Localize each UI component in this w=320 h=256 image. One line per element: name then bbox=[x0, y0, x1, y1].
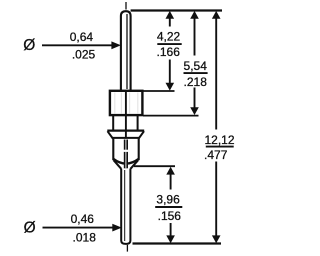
svg-text:.477: .477 bbox=[204, 148, 228, 162]
dim line 4,22 vertical segments bbox=[169, 17, 171, 27]
extension line 4,22 (body top, to right) bbox=[143, 90, 175, 92]
svg-text:.018: .018 bbox=[73, 230, 97, 244]
svg-text:Ø: Ø bbox=[23, 37, 35, 54]
svg-text:0,46: 0,46 bbox=[71, 212, 95, 226]
dim line 5,54 vertical segments bbox=[194, 17, 196, 56]
arrowhead up 12,12 bbox=[212, 11, 221, 19]
fraction bar 12,12/.477 bbox=[206, 146, 234, 148]
bottom label leader line 0,46 bbox=[43, 227, 115, 229]
svg-text:4,22: 4,22 bbox=[157, 29, 181, 43]
svg-text:.156: .156 bbox=[158, 209, 182, 223]
barrel bbox=[112, 139, 114, 161]
extension line 5,54 (body bottom, to right) bbox=[143, 115, 199, 117]
top label leader line 0,64 bbox=[42, 44, 113, 46]
neck below body bbox=[112, 115, 114, 131]
bottom pin shaft outline bbox=[121, 169, 130, 244]
dim line 12,12 vertical segments bbox=[215, 17, 217, 130]
barrel bottom cup arc bbox=[113, 159, 138, 164]
svg-text:.218: .218 bbox=[184, 75, 208, 89]
top extension line from pin tip bbox=[131, 9, 222, 11]
arrowhead up 4,22 bbox=[166, 11, 175, 19]
svg-text:3,96: 3,96 bbox=[156, 193, 180, 207]
taper from barrel to bottom pin bbox=[114, 160, 122, 169]
svg-text:.025: .025 bbox=[72, 47, 96, 61]
arrowhead up 3,96 bbox=[166, 167, 175, 175]
bottom dimension baseline bbox=[133, 242, 222, 244]
body center line bbox=[125, 91, 127, 115]
arrowhead up 5,54 bbox=[190, 11, 199, 19]
fraction bar 3,96/.156 bbox=[155, 206, 182, 208]
bottom pin inner line bbox=[124, 170, 126, 241]
svg-text:5,54: 5,54 bbox=[184, 59, 208, 73]
svg-text:12,12: 12,12 bbox=[204, 133, 234, 147]
pin bottom center tick bbox=[126, 245, 128, 252]
svg-text:Ø: Ø bbox=[24, 219, 36, 236]
body shading light lines bbox=[115, 93, 138, 114]
extension line 3,96 (taper level, to right) bbox=[134, 165, 175, 167]
top pin shaft outline bbox=[121, 11, 131, 90]
body rectangle bbox=[110, 91, 142, 115]
arrowhead down 5,54 bbox=[190, 107, 199, 115]
arrowhead down 12,12 bbox=[212, 235, 221, 243]
barrel center dark stripe bbox=[124, 140, 128, 169]
flange flare bbox=[107, 130, 144, 132]
arrowhead down 4,22 bbox=[166, 83, 175, 91]
dim line 3,96 vertical segments bbox=[170, 173, 172, 190]
fraction bar 5,54/.218 bbox=[184, 72, 208, 74]
svg-text:.166: .166 bbox=[157, 45, 181, 59]
svg-text:0,64: 0,64 bbox=[70, 30, 94, 44]
arrowhead right 0,64 leader bbox=[111, 41, 121, 49]
fraction bar 4,22/.166 bbox=[157, 43, 181, 45]
top pin shaft inner center line bbox=[126, 14, 128, 89]
arrowhead down 3,96 bbox=[166, 235, 175, 243]
arrowhead right 0,46 leader bbox=[112, 224, 122, 232]
pin top center tick bbox=[125, 2, 127, 10]
